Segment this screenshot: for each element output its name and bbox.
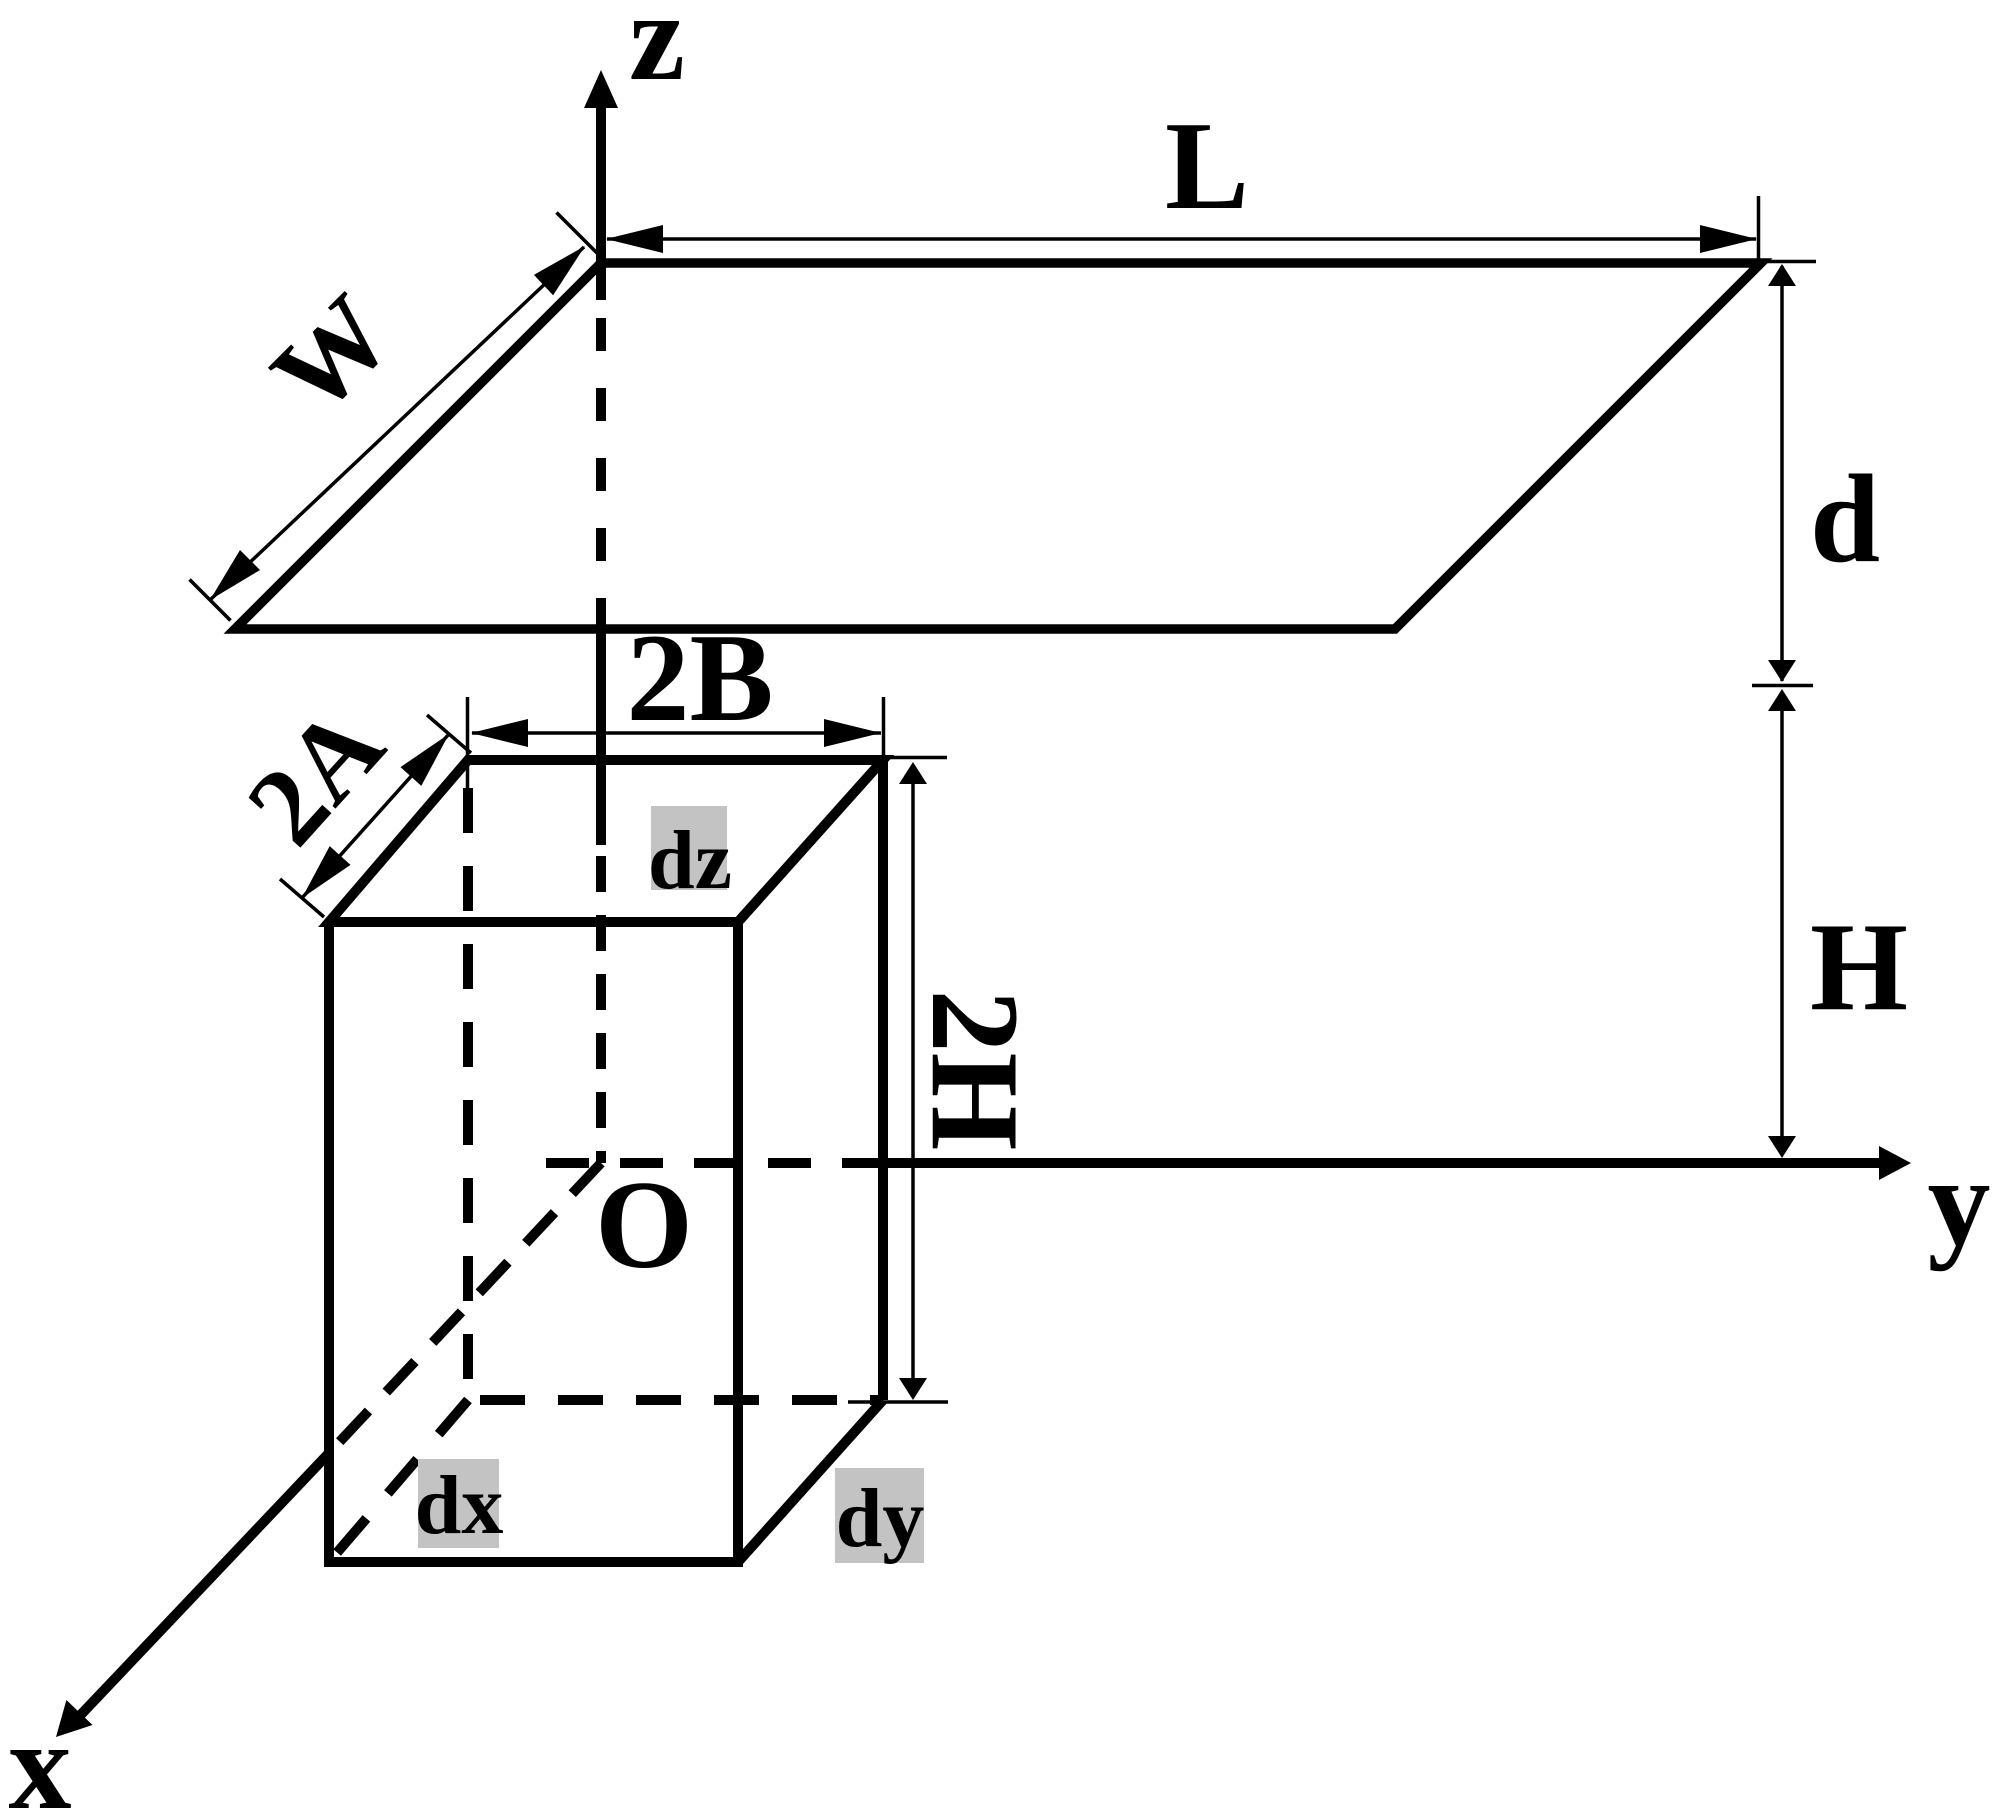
svg-text:2B: 2B [626, 609, 773, 748]
svg-text:dy: dy [836, 1472, 925, 1565]
plate (rectangular sheet W x L) [235, 263, 1761, 629]
svg-text:L: L [1165, 97, 1249, 236]
x-axis [56, 1163, 601, 1737]
dimension L [606, 196, 1759, 263]
dimension 2B [468, 697, 884, 800]
dimension 2H [848, 758, 948, 1403]
svg-text:dz: dz [648, 814, 732, 907]
svg-text:x: x [9, 1697, 72, 1817]
dimension d [1752, 262, 1816, 686]
svg-text:O: O [595, 1156, 693, 1295]
dimension H [1768, 689, 1796, 1158]
y-axis [546, 1146, 1911, 1180]
dimension W [190, 213, 598, 621]
svg-text:z: z [629, 0, 685, 107]
box hidden edge back-bottom [480, 1395, 883, 1405]
dimension 2A [280, 715, 471, 917]
label dx [415, 1459, 504, 1552]
box (parallelepiped 2A x 2B x 2H) visible edges [329, 760, 883, 1562]
svg-text:2H: 2H [905, 989, 1044, 1150]
label dz [648, 806, 732, 907]
svg-text:H: H [1810, 898, 1908, 1037]
svg-text:y: y [1928, 1133, 1991, 1272]
box hidden edge back-left vertical [463, 788, 473, 1400]
label dy [835, 1468, 924, 1565]
box hidden edge bottom-left diagonal [329, 1400, 468, 1562]
z-axis [584, 70, 618, 1163]
svg-text:dx: dx [415, 1459, 504, 1552]
svg-text:d: d [1810, 450, 1880, 589]
